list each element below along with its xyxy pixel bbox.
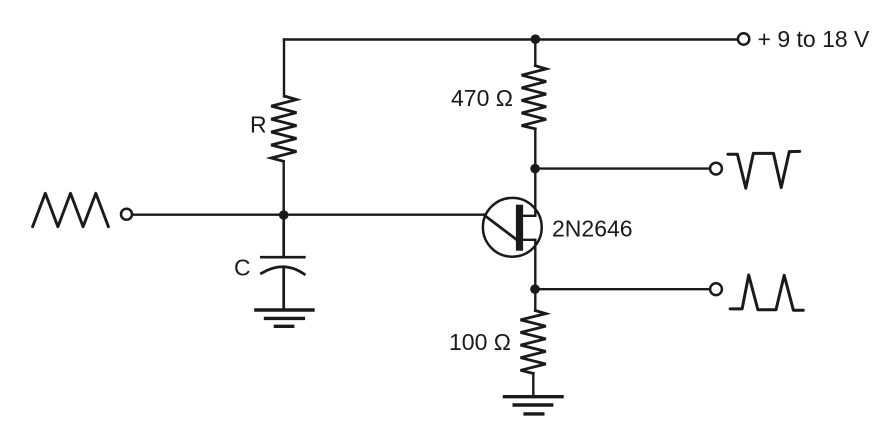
node A junction dot (279, 210, 289, 220)
wire top junction to 470 ohm (534, 40, 536, 66)
wire 100 ohm to ground (532, 373, 534, 396)
svg-text:2N2646: 2N2646 (552, 216, 633, 242)
resistor 100 ohm (521, 311, 546, 374)
ground (under 100 ohm) (505, 397, 563, 414)
sawtooth output waveform symbol (B2) (728, 151, 800, 188)
UJT base bar (516, 205, 523, 251)
node B junction dot (top rail / 470 ohm) (531, 34, 541, 44)
spike output waveform symbol (B1) (730, 275, 803, 310)
wire top rail down to R (283, 40, 285, 97)
wire input terminal to node A (133, 213, 284, 215)
UJT B1 lead (521, 239, 535, 241)
svg-text:R: R (250, 112, 267, 138)
terminal output B1 (710, 283, 722, 295)
wire node B1 to 100 ohm (534, 289, 536, 310)
node B2 junction dot (530, 164, 540, 174)
svg-text:100 Ω: 100 Ω (449, 329, 511, 355)
wire vertical into UJT B2 (534, 169, 536, 216)
input triangle-wave symbol (33, 193, 109, 226)
node B1 junction dot (530, 284, 540, 294)
wire UJT B1 down to node B1 (534, 240, 536, 289)
resistor R (271, 96, 296, 161)
wire top rail (284, 38, 535, 40)
wire node B2 to output terminal 1 (535, 167, 709, 169)
svg-text:470 Ω: 470 Ω (451, 85, 513, 111)
transistor Q1 2N2646 (UJT) (483, 198, 542, 257)
svg-text:C: C (234, 255, 251, 281)
svg-text:+ 9 to 18 V: + 9 to 18 V (758, 26, 871, 52)
capacitor C (261, 215, 304, 309)
UJT B2 lead (521, 215, 535, 217)
terminal output B2 (710, 163, 722, 175)
terminal (input) (121, 209, 132, 220)
terminal +V supply (738, 33, 749, 44)
wire node A to UJT emitter (284, 213, 484, 215)
wire 470 ohm to node B2 (534, 129, 536, 169)
UJT emitter lead (484, 215, 517, 240)
resistor 470 ohm (522, 66, 547, 129)
wire R bottom to node A (283, 161, 285, 215)
wire node B1 to output terminal 2 (535, 288, 709, 290)
ground (under C) (256, 310, 313, 326)
